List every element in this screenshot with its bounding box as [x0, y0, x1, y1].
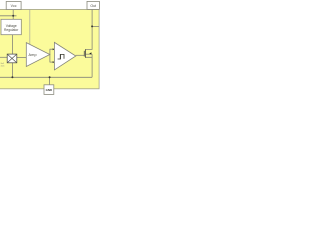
svg-text:elem: elem: [1, 65, 5, 67]
svg-text:Regulator: Regulator: [4, 28, 19, 32]
node junction out wire: [91, 25, 93, 27]
wire schmitt output to transistor gate: [76, 54, 85, 56]
arrowhead lower input: [53, 61, 55, 63]
node junction hall ground: [11, 76, 13, 78]
wire Hall element to amp: [17, 56, 27, 58]
Hall element X1: [7, 54, 17, 63]
transistor Q1 body arrow: [89, 52, 91, 54]
IC block body: [0, 9, 99, 88]
voltage regulator U1: [1, 19, 21, 34]
svg-text:Out: Out: [90, 4, 96, 8]
wire transistor body: [86, 53, 92, 55]
wire transistor body to source: [91, 54, 93, 57]
transistor Q1 channel bar: [85, 49, 87, 58]
wire Hall element to ground rail: [12, 63, 14, 78]
Out pin box: [87, 1, 99, 9]
wire top border to amp: [29, 10, 31, 45]
wire schmitt upper input: [50, 48, 53, 50]
svg-text:Amp: Amp: [29, 53, 37, 57]
wire Vcc rail: [0, 15, 17, 17]
wire left border to Hall element: [0, 56, 7, 58]
wire Vcc drop to regulator: [12, 10, 14, 20]
wire transistor drain to Out: [86, 10, 93, 50]
wire amp output bus: [49, 49, 51, 63]
GND pin box: [44, 85, 54, 95]
svg-text:GND: GND: [46, 88, 52, 92]
wire ground drop to GND pin: [49, 77, 51, 85]
op-amp A1: [26, 43, 50, 67]
node junction Vcc rail: [12, 15, 14, 17]
schmitt trigger U2: [54, 42, 75, 70]
schmitt hysteresis symbol: [58, 54, 64, 59]
node junction ground rail: [49, 76, 51, 78]
wire regulator to Hall element: [12, 35, 14, 54]
wire branch to right border: [92, 25, 99, 27]
arrowhead upper input: [53, 48, 55, 50]
wire ground rail: [0, 76, 92, 78]
wire schmitt lower input: [50, 61, 53, 63]
wire transistor source to ground rail: [86, 57, 93, 77]
transistor Q1 gate bar: [83, 51, 85, 57]
svg-text:Vcc: Vcc: [11, 4, 17, 8]
Vcc pin box: [6, 2, 21, 10]
